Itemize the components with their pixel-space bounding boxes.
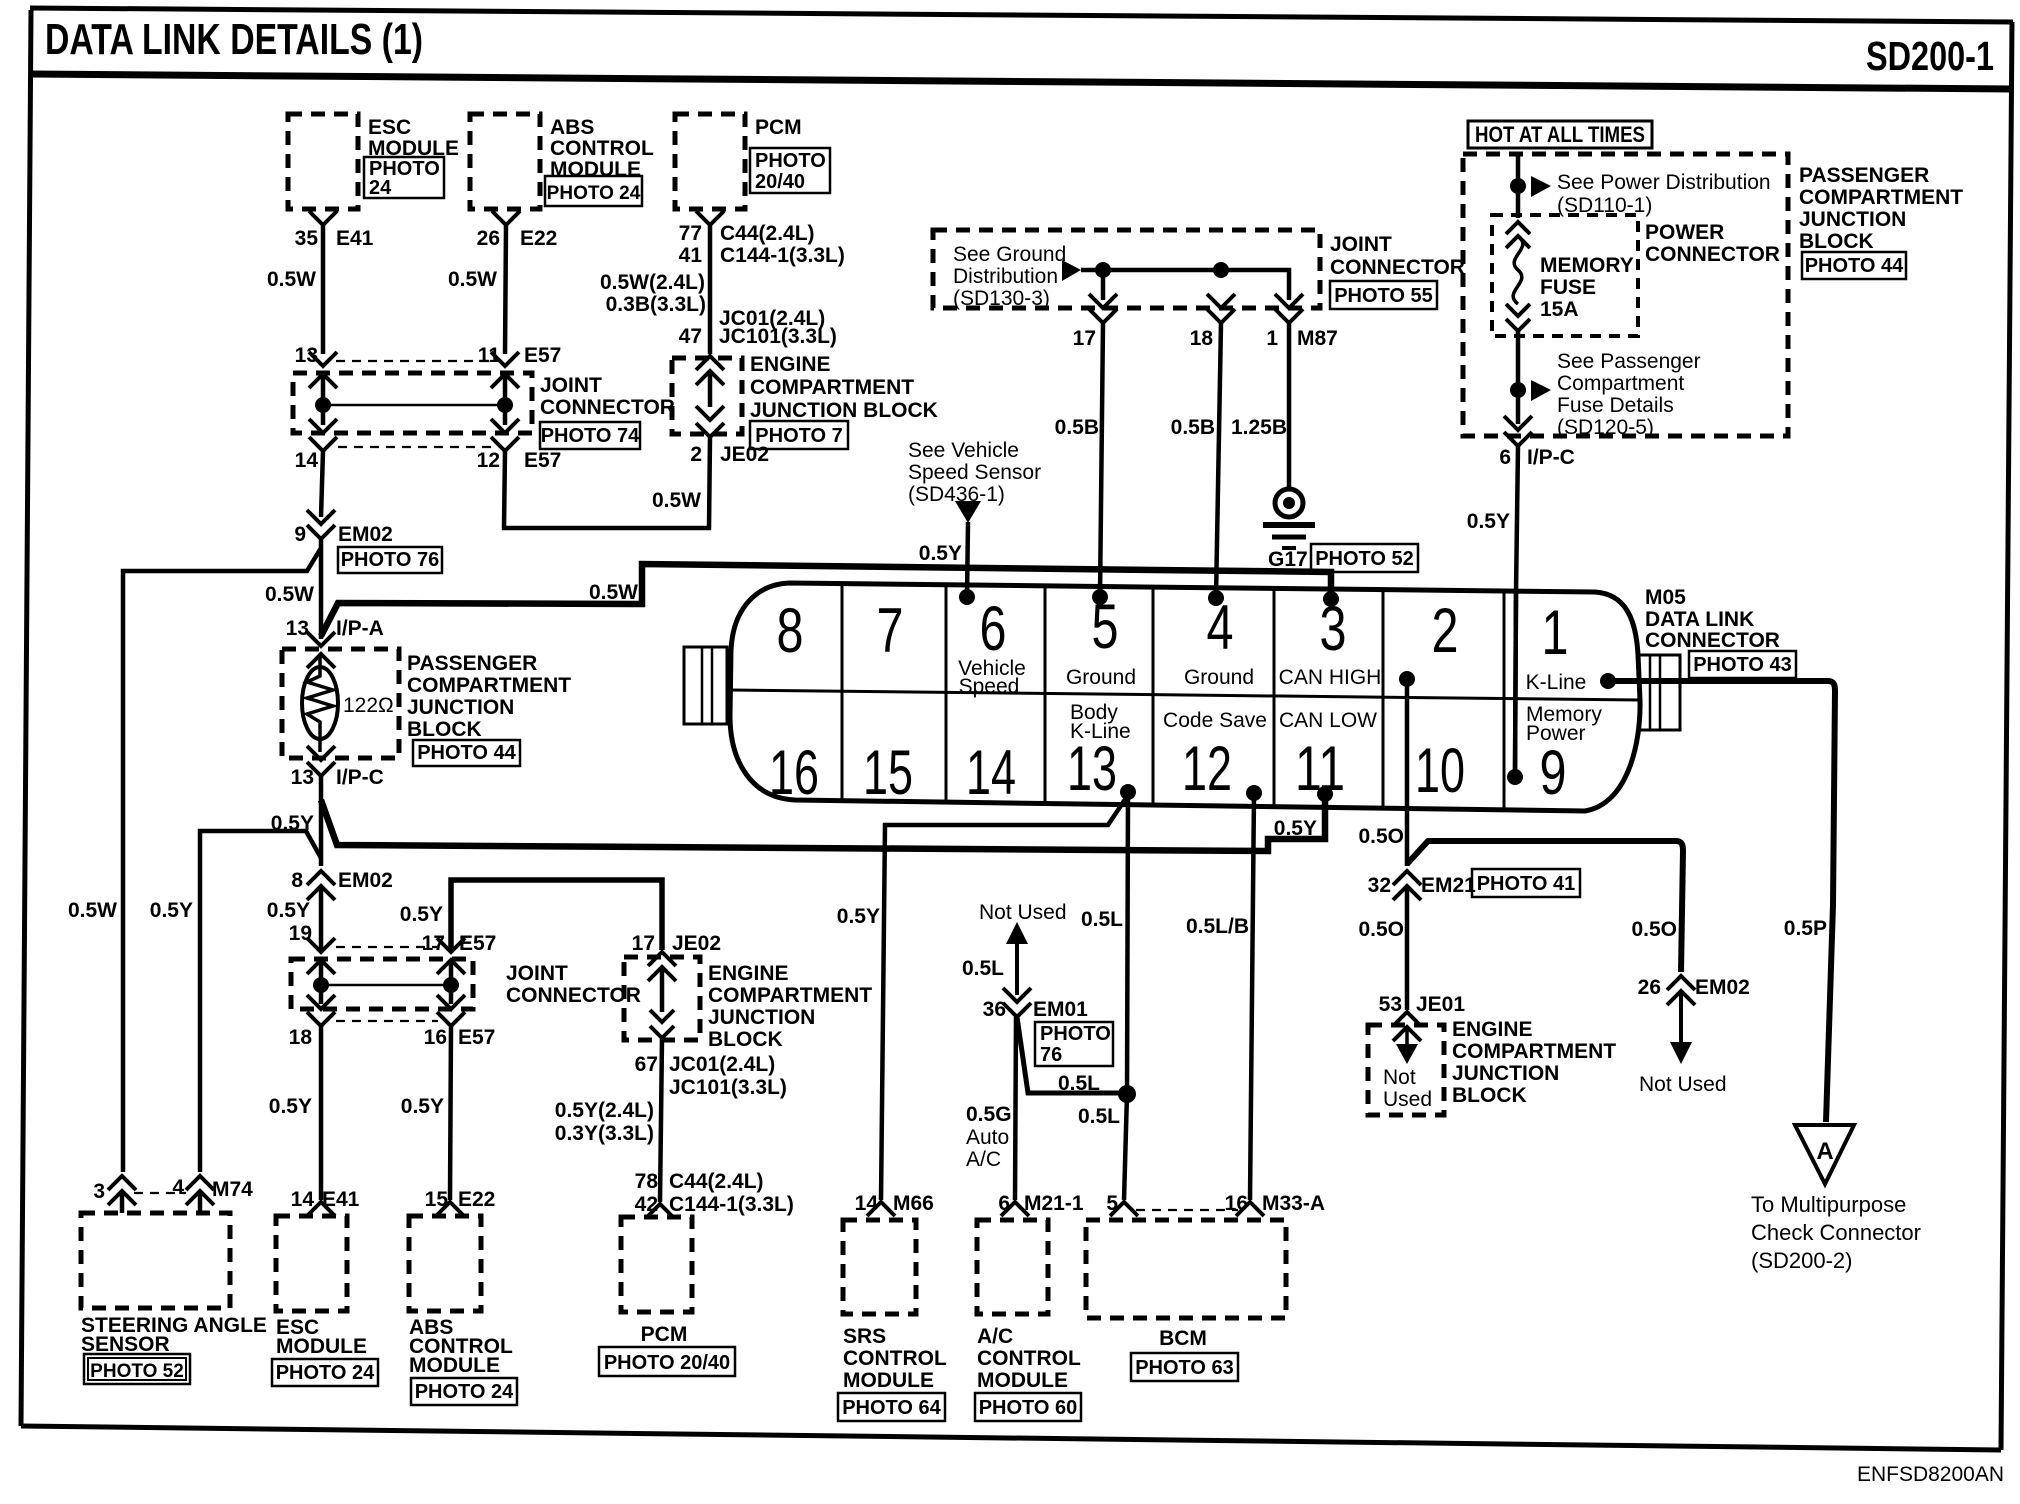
- wire jc2 pin 18 to E41-14: [319, 1026, 324, 1200]
- svg-text:PHOTO 76: PHOTO 76: [341, 549, 440, 571]
- connector M74 pin 3 halves: [108, 1176, 136, 1190]
- svg-text:ENGINE: ENGINE: [750, 353, 831, 376]
- label box PHOTO 20/40 (PCM bottom): [599, 1347, 735, 1376]
- svg-text:78: 78: [635, 1170, 659, 1193]
- svg-text:JUNCTION: JUNCTION: [1799, 208, 1906, 231]
- svg-text:0.5L: 0.5L: [1081, 908, 1123, 931]
- svg-text:JC101(3.3L): JC101(3.3L): [669, 1076, 787, 1099]
- svg-text:2: 2: [1432, 596, 1459, 666]
- svg-text:13: 13: [1067, 734, 1117, 804]
- joint connector bus: [323, 404, 505, 407]
- memory fuse element: [1513, 236, 1523, 304]
- svg-text:0.5W: 0.5W: [652, 489, 701, 512]
- resistor 122 ohm: [302, 667, 338, 739]
- branch wire to EM02-26: [1407, 841, 1683, 972]
- module ABS CONTROL MODULE (top): [470, 114, 540, 209]
- svg-text:16: 16: [769, 738, 819, 808]
- svg-text:K-Line: K-Line: [1526, 671, 1587, 694]
- wire junction to BCM pin 5: [1124, 1094, 1127, 1200]
- svg-text:JC01(2.4L): JC01(2.4L): [669, 1053, 775, 1076]
- label box PHOTO 24 (ESC bottom): [272, 1359, 378, 1386]
- module PCM (top): [675, 114, 745, 209]
- label box PHOTO 44 (left): [413, 740, 520, 766]
- svg-text:CONNECTOR: CONNECTOR: [540, 396, 675, 419]
- wire 0.5B to DLC pin 4: [1216, 323, 1221, 597]
- module BCM dashed box: [1086, 1220, 1286, 1318]
- wire EM21 to JE01: [1405, 886, 1410, 1010]
- svg-text:0.5O: 0.5O: [1358, 825, 1404, 848]
- wire memory power inside dlc: [1515, 592, 1516, 777]
- svg-text:PCM: PCM: [755, 116, 802, 139]
- svg-text:15A: 15A: [1540, 298, 1579, 321]
- module ESC MODULE (top): [288, 114, 358, 209]
- passenger compartment junction block (power) dashed box: [1463, 154, 1788, 436]
- svg-text:0.3B(3.3L): 0.3B(3.3L): [606, 293, 706, 316]
- mating line top (jc2): [336, 946, 438, 948]
- connector M66 pin 14 (module Y): [867, 1202, 895, 1216]
- svg-text:CONNECTOR: CONNECTOR: [1645, 243, 1780, 266]
- svg-text:26: 26: [1638, 976, 1661, 999]
- svg-text:E22: E22: [458, 1188, 495, 1211]
- wire ABS to joint connector: [505, 225, 506, 354]
- svg-text:CONTROL: CONTROL: [977, 1347, 1081, 1370]
- svg-text:24: 24: [369, 177, 392, 199]
- left tab: [684, 647, 727, 724]
- svg-text:PHOTO 24: PHOTO 24: [415, 1381, 514, 1403]
- connector halves pin 18: [1207, 294, 1235, 308]
- svg-text:EM02: EM02: [338, 869, 393, 892]
- svg-text:CONNECTOR: CONNECTOR: [1330, 256, 1465, 279]
- svg-text:JOINT: JOINT: [540, 374, 602, 397]
- svg-text:0.5B: 0.5B: [1055, 416, 1099, 439]
- connector EM01 pin 36 halves: [1003, 988, 1031, 1002]
- label box PHOTO 52 (steering): [84, 1354, 190, 1384]
- wire 1.25B to ground G17: [1287, 323, 1292, 490]
- svg-text:DATA LINK DETAILS (1): DATA LINK DETAILS (1): [45, 15, 423, 64]
- svg-text:1.25B: 1.25B: [1231, 416, 1287, 439]
- svg-text:To Multipurpose: To Multipurpose: [1751, 1192, 1906, 1217]
- connector M33-A pin 5 (module Y): [1110, 1202, 1138, 1216]
- connector E22 pin 15 (module Y): [436, 1202, 464, 1216]
- svg-text:MODULE: MODULE: [843, 1369, 934, 1392]
- svg-text:(SD200-2): (SD200-2): [1751, 1248, 1852, 1273]
- wire I/P-C to EM02-8: [319, 776, 324, 866]
- svg-text:0.5W: 0.5W: [448, 268, 497, 291]
- svg-text:ABS: ABS: [550, 116, 594, 139]
- wire JE02-2 joins E57-12: [504, 437, 710, 528]
- svg-text:36: 36: [983, 998, 1006, 1021]
- svg-text:MODULE: MODULE: [276, 1335, 367, 1358]
- connector EM02 pin 9 halves: [307, 510, 335, 524]
- wire PCM to engine junction block: [708, 225, 713, 354]
- label box PHOTO 24 (ABS bottom): [411, 1378, 517, 1405]
- connector E22 pin 26 (module Y): [492, 211, 520, 225]
- mating line bottom (jc2): [336, 1020, 438, 1022]
- svg-text:8: 8: [777, 596, 804, 666]
- label box PHOTO 64: [838, 1393, 945, 1421]
- connector JC01/JC101 pin 67 halves: [650, 1010, 674, 1022]
- svg-text:JUNCTION: JUNCTION: [708, 1006, 815, 1029]
- wire I/P-C to CAN LOW pin 11: [321, 794, 1325, 851]
- svg-text:12: 12: [477, 449, 500, 472]
- svg-text:COMPARTMENT: COMPARTMENT: [750, 376, 914, 399]
- connector EM02 pin 8 halves: [307, 871, 335, 885]
- junction block internal wire (lower): [660, 967, 665, 1012]
- svg-text:EM02: EM02: [1695, 976, 1750, 999]
- label box PHOTO 43: [1689, 651, 1796, 678]
- connector C44/C144-1 pins 78/42 (module Y): [646, 1204, 674, 1218]
- connector halves EM02-19 into jc2: [307, 938, 335, 952]
- svg-text:41: 41: [679, 244, 703, 267]
- connector halves E57-17 into jc2: [437, 938, 465, 952]
- module STEERING ANGLE SENSOR dashed box: [81, 1213, 230, 1308]
- svg-text:35: 35: [295, 227, 319, 250]
- not used arrow EM01: [1006, 922, 1028, 944]
- connector M74 pin 4 halves: [186, 1176, 214, 1190]
- engine compartment junction block (lower) dashed box: [624, 957, 700, 1040]
- label box PHOTO 52 (G17): [1311, 544, 1418, 572]
- svg-text:Not Used: Not Used: [1639, 1073, 1727, 1096]
- module PCM (bottom) dashed box: [621, 1217, 692, 1312]
- wire not used to EM01: [1015, 942, 1019, 995]
- joint connector internal wire left: [321, 374, 326, 425]
- svg-text:18: 18: [1190, 327, 1214, 350]
- connector halves out pin 18: [307, 995, 335, 1009]
- svg-text:16: 16: [1225, 1192, 1248, 1215]
- connector EM02 pin 26 halves: [1667, 976, 1695, 990]
- svg-text:PASSENGER: PASSENGER: [407, 652, 537, 675]
- svg-text:17: 17: [632, 932, 655, 955]
- svg-text:M87: M87: [1297, 327, 1338, 350]
- memory fuse dashed box: [1492, 215, 1638, 336]
- svg-text:0.5G: 0.5G: [966, 1103, 1012, 1126]
- svg-text:M05: M05: [1645, 586, 1686, 609]
- jc2 internal wire left: [319, 960, 324, 1004]
- svg-text:1: 1: [1542, 598, 1569, 668]
- svg-text:JUNCTION: JUNCTION: [407, 696, 514, 719]
- svg-text:CONNECTOR: CONNECTOR: [1645, 629, 1780, 652]
- svg-text:0.5W: 0.5W: [267, 268, 316, 291]
- module A/C CONTROL MODULE dashed box: [977, 1220, 1048, 1314]
- junction dot ground 18: [1213, 262, 1229, 278]
- label box PHOTO 76 (EM01): [1035, 1022, 1113, 1066]
- svg-text:E57: E57: [524, 344, 561, 367]
- off-page triangle A: [1795, 1125, 1854, 1184]
- svg-text:14: 14: [291, 1188, 315, 1211]
- not used stub inside junction block: [1405, 1027, 1409, 1044]
- svg-text:M21-1: M21-1: [1024, 1192, 1084, 1215]
- svg-text:6: 6: [980, 594, 1007, 664]
- module SRS CONTROL MODULE dashed box: [843, 1220, 916, 1314]
- svg-text:1: 1: [1266, 327, 1278, 350]
- svg-text:E57: E57: [458, 1026, 495, 1049]
- not used stub EM02-26: [1679, 991, 1683, 1042]
- svg-text:COMPARTMENT: COMPARTMENT: [407, 674, 571, 697]
- svg-text:Not: Not: [1383, 1066, 1416, 1089]
- svg-text:PHOTO 20/40: PHOTO 20/40: [604, 1352, 730, 1374]
- connector I/P-C pin 6 halves: [1504, 416, 1532, 430]
- svg-text:PHOTO 64: PHOTO 64: [842, 1397, 941, 1419]
- svg-text:SRS: SRS: [843, 1325, 886, 1348]
- svg-text:PASSENGER: PASSENGER: [1799, 164, 1929, 187]
- svg-text:BCM: BCM: [1159, 1327, 1207, 1350]
- data link connector body outline: [730, 583, 1640, 811]
- svg-text:17: 17: [1073, 327, 1096, 350]
- svg-text:7: 7: [877, 596, 904, 666]
- svg-text:M33-A: M33-A: [1262, 1192, 1325, 1215]
- svg-text:CONTROL: CONTROL: [843, 1347, 947, 1370]
- svg-text:A: A: [1816, 1138, 1833, 1165]
- svg-text:13: 13: [286, 617, 309, 640]
- wire dlc pin 12 to BCM pin 16: [1250, 793, 1254, 1200]
- label box HOT AT ALL TIMES: [1468, 121, 1652, 148]
- svg-text:0.5Y: 0.5Y: [269, 1095, 312, 1118]
- svg-text:BLOCK: BLOCK: [1799, 230, 1874, 253]
- label box PHOTO 44 (power): [1802, 252, 1906, 279]
- connector JE01 pin 53 halves: [1393, 1012, 1421, 1026]
- wire EM02-8 to joint connector 2: [319, 886, 324, 952]
- svg-text:CAN HIGH: CAN HIGH: [1279, 666, 1382, 689]
- branch wire to M74 pin 4: [200, 831, 321, 1172]
- svg-text:0.5Y: 0.5Y: [919, 542, 962, 565]
- svg-text:16: 16: [424, 1026, 447, 1049]
- mating line M74: [134, 1192, 186, 1194]
- svg-text:PHOTO 43: PHOTO 43: [1693, 654, 1792, 676]
- wire E57-17 riser to JE02-17 bus: [451, 880, 662, 952]
- connector EM21 pin 32 halves: [1393, 871, 1421, 885]
- module ABS CONTROL MODULE (bottom) dashed box: [409, 1216, 481, 1311]
- wire junction block to PCM (bottom): [660, 1038, 662, 1202]
- svg-text:Speed Sensor: Speed Sensor: [908, 461, 1041, 484]
- svg-text:PHOTO: PHOTO: [755, 150, 826, 172]
- connector M21-1 pin 6 (module Y): [1001, 1202, 1029, 1216]
- svg-text:0.5W: 0.5W: [265, 583, 314, 606]
- junction dot body k-line: [1118, 1085, 1136, 1103]
- svg-text:ENGINE: ENGINE: [708, 962, 789, 985]
- svg-text:DATA LINK: DATA LINK: [1645, 608, 1754, 631]
- jc2 junction dot right: [443, 977, 459, 993]
- label box PHOTO 24 (ESC top): [364, 157, 444, 198]
- junction dot right: [497, 397, 513, 413]
- svg-text:CAN LOW: CAN LOW: [1279, 709, 1377, 732]
- wire EM01 to AC module: [1015, 1017, 1016, 1200]
- svg-text:A/C: A/C: [977, 1325, 1013, 1348]
- svg-text:0.3Y(3.3L): 0.3Y(3.3L): [555, 1122, 654, 1145]
- svg-text:Ground: Ground: [1184, 666, 1254, 689]
- svg-text:32: 32: [1368, 874, 1391, 897]
- passenger compartment junction block (left) dashed box: [282, 649, 399, 758]
- connector M33-A pin 16 (module Y): [1236, 1202, 1264, 1216]
- svg-text:BLOCK: BLOCK: [1452, 1084, 1527, 1107]
- svg-text:See Passenger: See Passenger: [1557, 350, 1701, 373]
- svg-text:(SD120-5): (SD120-5): [1557, 416, 1654, 439]
- wire dlc pin 2 down to EM21: [1405, 679, 1410, 866]
- svg-text:42: 42: [635, 1193, 658, 1216]
- svg-text:M74: M74: [212, 1178, 253, 1201]
- svg-text:0.5Y: 0.5Y: [150, 899, 193, 922]
- svg-text:EM21: EM21: [1421, 874, 1476, 897]
- svg-text:Power: Power: [1526, 722, 1586, 745]
- svg-text:0.5L: 0.5L: [1078, 1105, 1120, 1128]
- connector E41 pin 35 (module Y): [309, 211, 337, 225]
- svg-text:K-Line: K-Line: [1070, 720, 1131, 743]
- svg-text:JC101(3.3L): JC101(3.3L): [719, 325, 837, 348]
- connector I/P-A pin 13 halves: [307, 632, 335, 646]
- svg-text:10: 10: [1415, 736, 1465, 806]
- svg-text:JOINT: JOINT: [1330, 233, 1392, 256]
- svg-text:122Ω: 122Ω: [343, 694, 394, 717]
- svg-text:47: 47: [679, 325, 702, 348]
- connector halves fuse bottom: [1506, 304, 1530, 316]
- connector C44/C144-1 pins 77/41 (module Y): [696, 211, 724, 225]
- svg-text:C144-1(3.3L): C144-1(3.3L): [720, 244, 845, 267]
- svg-text:PHOTO 55: PHOTO 55: [1334, 285, 1433, 307]
- label box PHOTO 41: [1472, 869, 1580, 897]
- joint connector internal wire right: [503, 374, 508, 425]
- svg-text:COMPARTMENT: COMPARTMENT: [1799, 186, 1963, 209]
- arrow to passenger fuse details: [1531, 380, 1551, 401]
- svg-text:MEMORY: MEMORY: [1540, 254, 1634, 277]
- svg-text:0.5O: 0.5O: [1631, 918, 1677, 941]
- label box PHOTO 63: [1131, 1353, 1238, 1381]
- label box PHOTO 60: [975, 1393, 1081, 1421]
- svg-text:0.5O: 0.5O: [1358, 918, 1404, 941]
- svg-text:0.5Y: 0.5Y: [837, 905, 880, 928]
- svg-text:Ground: Ground: [1066, 666, 1136, 689]
- svg-text:0.5W: 0.5W: [68, 899, 117, 922]
- svg-text:PHOTO 24: PHOTO 24: [547, 183, 641, 204]
- svg-text:14: 14: [295, 449, 319, 472]
- svg-text:0.5W: 0.5W: [589, 581, 638, 604]
- svg-text:MODULE: MODULE: [977, 1369, 1068, 1392]
- wire EM02-9 to I/P-A: [319, 539, 324, 639]
- svg-text:PCM: PCM: [641, 1323, 688, 1346]
- wire dlc pin 13 body k-line down: [1127, 792, 1128, 1094]
- connector halves E41-13 into joint connector: [309, 352, 337, 366]
- connector I/P-C pin 13 halves: [307, 746, 335, 760]
- svg-text:Speed: Speed: [959, 675, 1020, 698]
- svg-text:G17: G17: [1268, 548, 1308, 571]
- svg-text:PHOTO 44: PHOTO 44: [1805, 255, 1904, 277]
- module ESC MODULE (bottom) dashed box: [276, 1216, 347, 1311]
- svg-text:0.5Y: 0.5Y: [401, 1095, 444, 1118]
- arrow from ground distribution: [1062, 260, 1081, 281]
- svg-text:ENGINE: ENGINE: [1452, 1018, 1533, 1041]
- wire K-Line 0.5P to check connector: [1608, 681, 1835, 1122]
- connector halves M87 pin 1: [1275, 294, 1303, 308]
- svg-text:PHOTO 74: PHOTO 74: [541, 425, 640, 447]
- svg-text:Code Save: Code Save: [1163, 709, 1267, 732]
- svg-text:76: 76: [1040, 1044, 1062, 1066]
- svg-text:SENSOR: SENSOR: [81, 1333, 170, 1356]
- svg-text:(SD130-3): (SD130-3): [953, 287, 1050, 310]
- wire 0.5B to DLC pin 5: [1100, 323, 1103, 597]
- svg-text:0.5L: 0.5L: [962, 957, 1004, 980]
- svg-text:C144-1(3.3L): C144-1(3.3L): [669, 1193, 794, 1216]
- svg-text:COMPARTMENT: COMPARTMENT: [1452, 1040, 1616, 1063]
- svg-text:6: 6: [998, 1192, 1010, 1215]
- right tab: [1639, 655, 1680, 730]
- dlc pin dots: [959, 589, 975, 605]
- dlc mid divider: [731, 690, 1640, 700]
- connector halves E57-11 into joint connector: [491, 352, 519, 366]
- svg-text:SD200-1: SD200-1: [1866, 33, 1994, 79]
- wire memory power to DLC pin 9: [1516, 446, 1518, 592]
- svg-text:Used: Used: [1383, 1088, 1432, 1111]
- svg-text:5: 5: [1106, 1192, 1118, 1215]
- wire ground pin 17: [1101, 270, 1106, 300]
- label box PHOTO 24 (ABS top): [545, 176, 642, 206]
- svg-text:77: 77: [679, 222, 702, 245]
- svg-text:JE01: JE01: [1416, 993, 1465, 1016]
- svg-text:2: 2: [690, 443, 702, 466]
- svg-text:POWER: POWER: [1645, 221, 1724, 244]
- svg-text:EM01: EM01: [1033, 998, 1088, 1021]
- wire EM01 to pin13 junction: [1017, 1017, 1127, 1093]
- svg-text:E57: E57: [459, 932, 496, 955]
- svg-text:3: 3: [93, 1180, 105, 1203]
- connector JE02 pin 2 halves: [696, 406, 724, 420]
- engine compartment junction block (top) dashed box: [672, 358, 742, 434]
- title bar underline: [30, 74, 2013, 89]
- arrow from vehicle speed sensor: [955, 501, 981, 523]
- svg-text:PHOTO 52: PHOTO 52: [1315, 548, 1414, 570]
- wire from hot feed: [1516, 154, 1521, 218]
- svg-text:PHOTO 52: PHOTO 52: [90, 1361, 184, 1382]
- wire jc2 pin 16 to E22-15: [450, 1026, 451, 1200]
- svg-text:Fuse Details: Fuse Details: [1557, 394, 1674, 417]
- jc2 junction dot left: [313, 977, 329, 993]
- svg-text:I/P-A: I/P-A: [336, 617, 384, 640]
- svg-text:E22: E22: [520, 227, 557, 250]
- svg-text:0.5Y: 0.5Y: [1274, 817, 1317, 840]
- svg-text:15: 15: [425, 1188, 449, 1211]
- svg-text:53: 53: [1379, 993, 1402, 1016]
- svg-text:M66: M66: [893, 1192, 934, 1215]
- ground symbol G17: [1275, 489, 1303, 517]
- svg-text:20/40: 20/40: [755, 171, 805, 193]
- junction dot ground 17: [1095, 262, 1111, 278]
- svg-text:ENFSD8200AN: ENFSD8200AN: [1857, 1463, 2004, 1486]
- svg-text:Not Used: Not Used: [979, 901, 1067, 924]
- svg-text:BLOCK: BLOCK: [407, 718, 482, 741]
- svg-text:FUSE: FUSE: [1540, 276, 1596, 299]
- svg-text:See Power Distribution: See Power Distribution: [1557, 171, 1771, 194]
- svg-text:Auto: Auto: [966, 1126, 1009, 1149]
- svg-text:0.5Y: 0.5Y: [267, 899, 310, 922]
- dlc cell dividers: [841, 584, 844, 801]
- svg-text:JUNCTION: JUNCTION: [1452, 1062, 1559, 1085]
- svg-text:COMPARTMENT: COMPARTMENT: [708, 984, 872, 1007]
- mating line bottom: [338, 446, 492, 448]
- svg-text:0.5L/B: 0.5L/B: [1186, 915, 1249, 938]
- svg-text:JE02: JE02: [672, 932, 721, 955]
- joint connector (lower) dashed box: [291, 959, 473, 1009]
- svg-text:E41: E41: [336, 227, 374, 250]
- svg-text:PHOTO 63: PHOTO 63: [1135, 1357, 1234, 1379]
- connector halves out right pin 12: [491, 419, 519, 433]
- svg-text:9: 9: [294, 523, 306, 546]
- connector halves fuse top: [1506, 222, 1530, 234]
- svg-text:Check Connector: Check Connector: [1751, 1220, 1921, 1245]
- junction dot power distribution: [1510, 178, 1526, 194]
- svg-text:E57: E57: [524, 449, 561, 472]
- svg-text:0.5P: 0.5P: [1784, 917, 1827, 940]
- connector halves out pin 16: [437, 995, 465, 1009]
- svg-text:6: 6: [1499, 446, 1511, 469]
- svg-text:E41: E41: [322, 1188, 360, 1211]
- svg-text:JE02: JE02: [720, 443, 769, 466]
